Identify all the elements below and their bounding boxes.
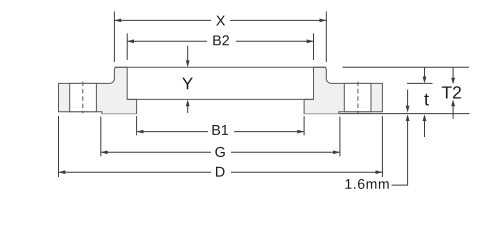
socket shoulder line across bore [127, 98, 313, 100]
bolt hole left centerline [82, 82, 84, 114]
dimension t upper arrow [424, 67, 426, 77]
raised face bottom edge right (light) [305, 113, 339, 115]
dimension D line [59, 171, 212, 173]
label B2 [213, 35, 229, 45]
label D [216, 167, 224, 177]
bolt hole left [70, 83, 97, 111]
raised face bottom edge left (light) [102, 113, 136, 115]
label G [215, 147, 224, 157]
flange body left half (section) [59, 67, 137, 113]
reference line hub top extended right [343, 66, 470, 68]
dimension G line [101, 151, 211, 153]
dimension B2 line [127, 40, 207, 42]
dimension X line [114, 19, 211, 21]
reference line flange top short [407, 82, 433, 84]
1.6mm callout upper arrow [407, 90, 409, 107]
label t [424, 94, 429, 106]
bolt hole right [344, 83, 371, 111]
label Y [182, 78, 193, 90]
label T2 [442, 86, 461, 98]
bolt hole right centerline [357, 82, 359, 114]
dimension Y lower arrow [187, 106, 189, 113]
hub top edge line across bore [114, 66, 326, 68]
dimension B1 extension lines [136, 116, 138, 135]
label 1.6mm [345, 179, 388, 189]
label X [216, 16, 225, 26]
dimension G extension lines [100, 117, 102, 157]
dimension Y upper arrow [187, 46, 189, 61]
dimension D extension lines [58, 116, 60, 177]
dimension t lower arrow [424, 121, 426, 137]
dimension B1 line [137, 131, 208, 133]
reference line flange bottom extended right [339, 113, 469, 115]
1.6mm callout lower arrow and leader [392, 121, 408, 185]
flange body right half (section) [304, 67, 382, 113]
dimension X extension lines [113, 12, 115, 63]
dimension B2 extension lines [126, 33, 128, 60]
label B1 [212, 125, 228, 135]
dimension T2 upper arrow [452, 67, 454, 78]
dimension T2 lower arrow [452, 106, 454, 119]
